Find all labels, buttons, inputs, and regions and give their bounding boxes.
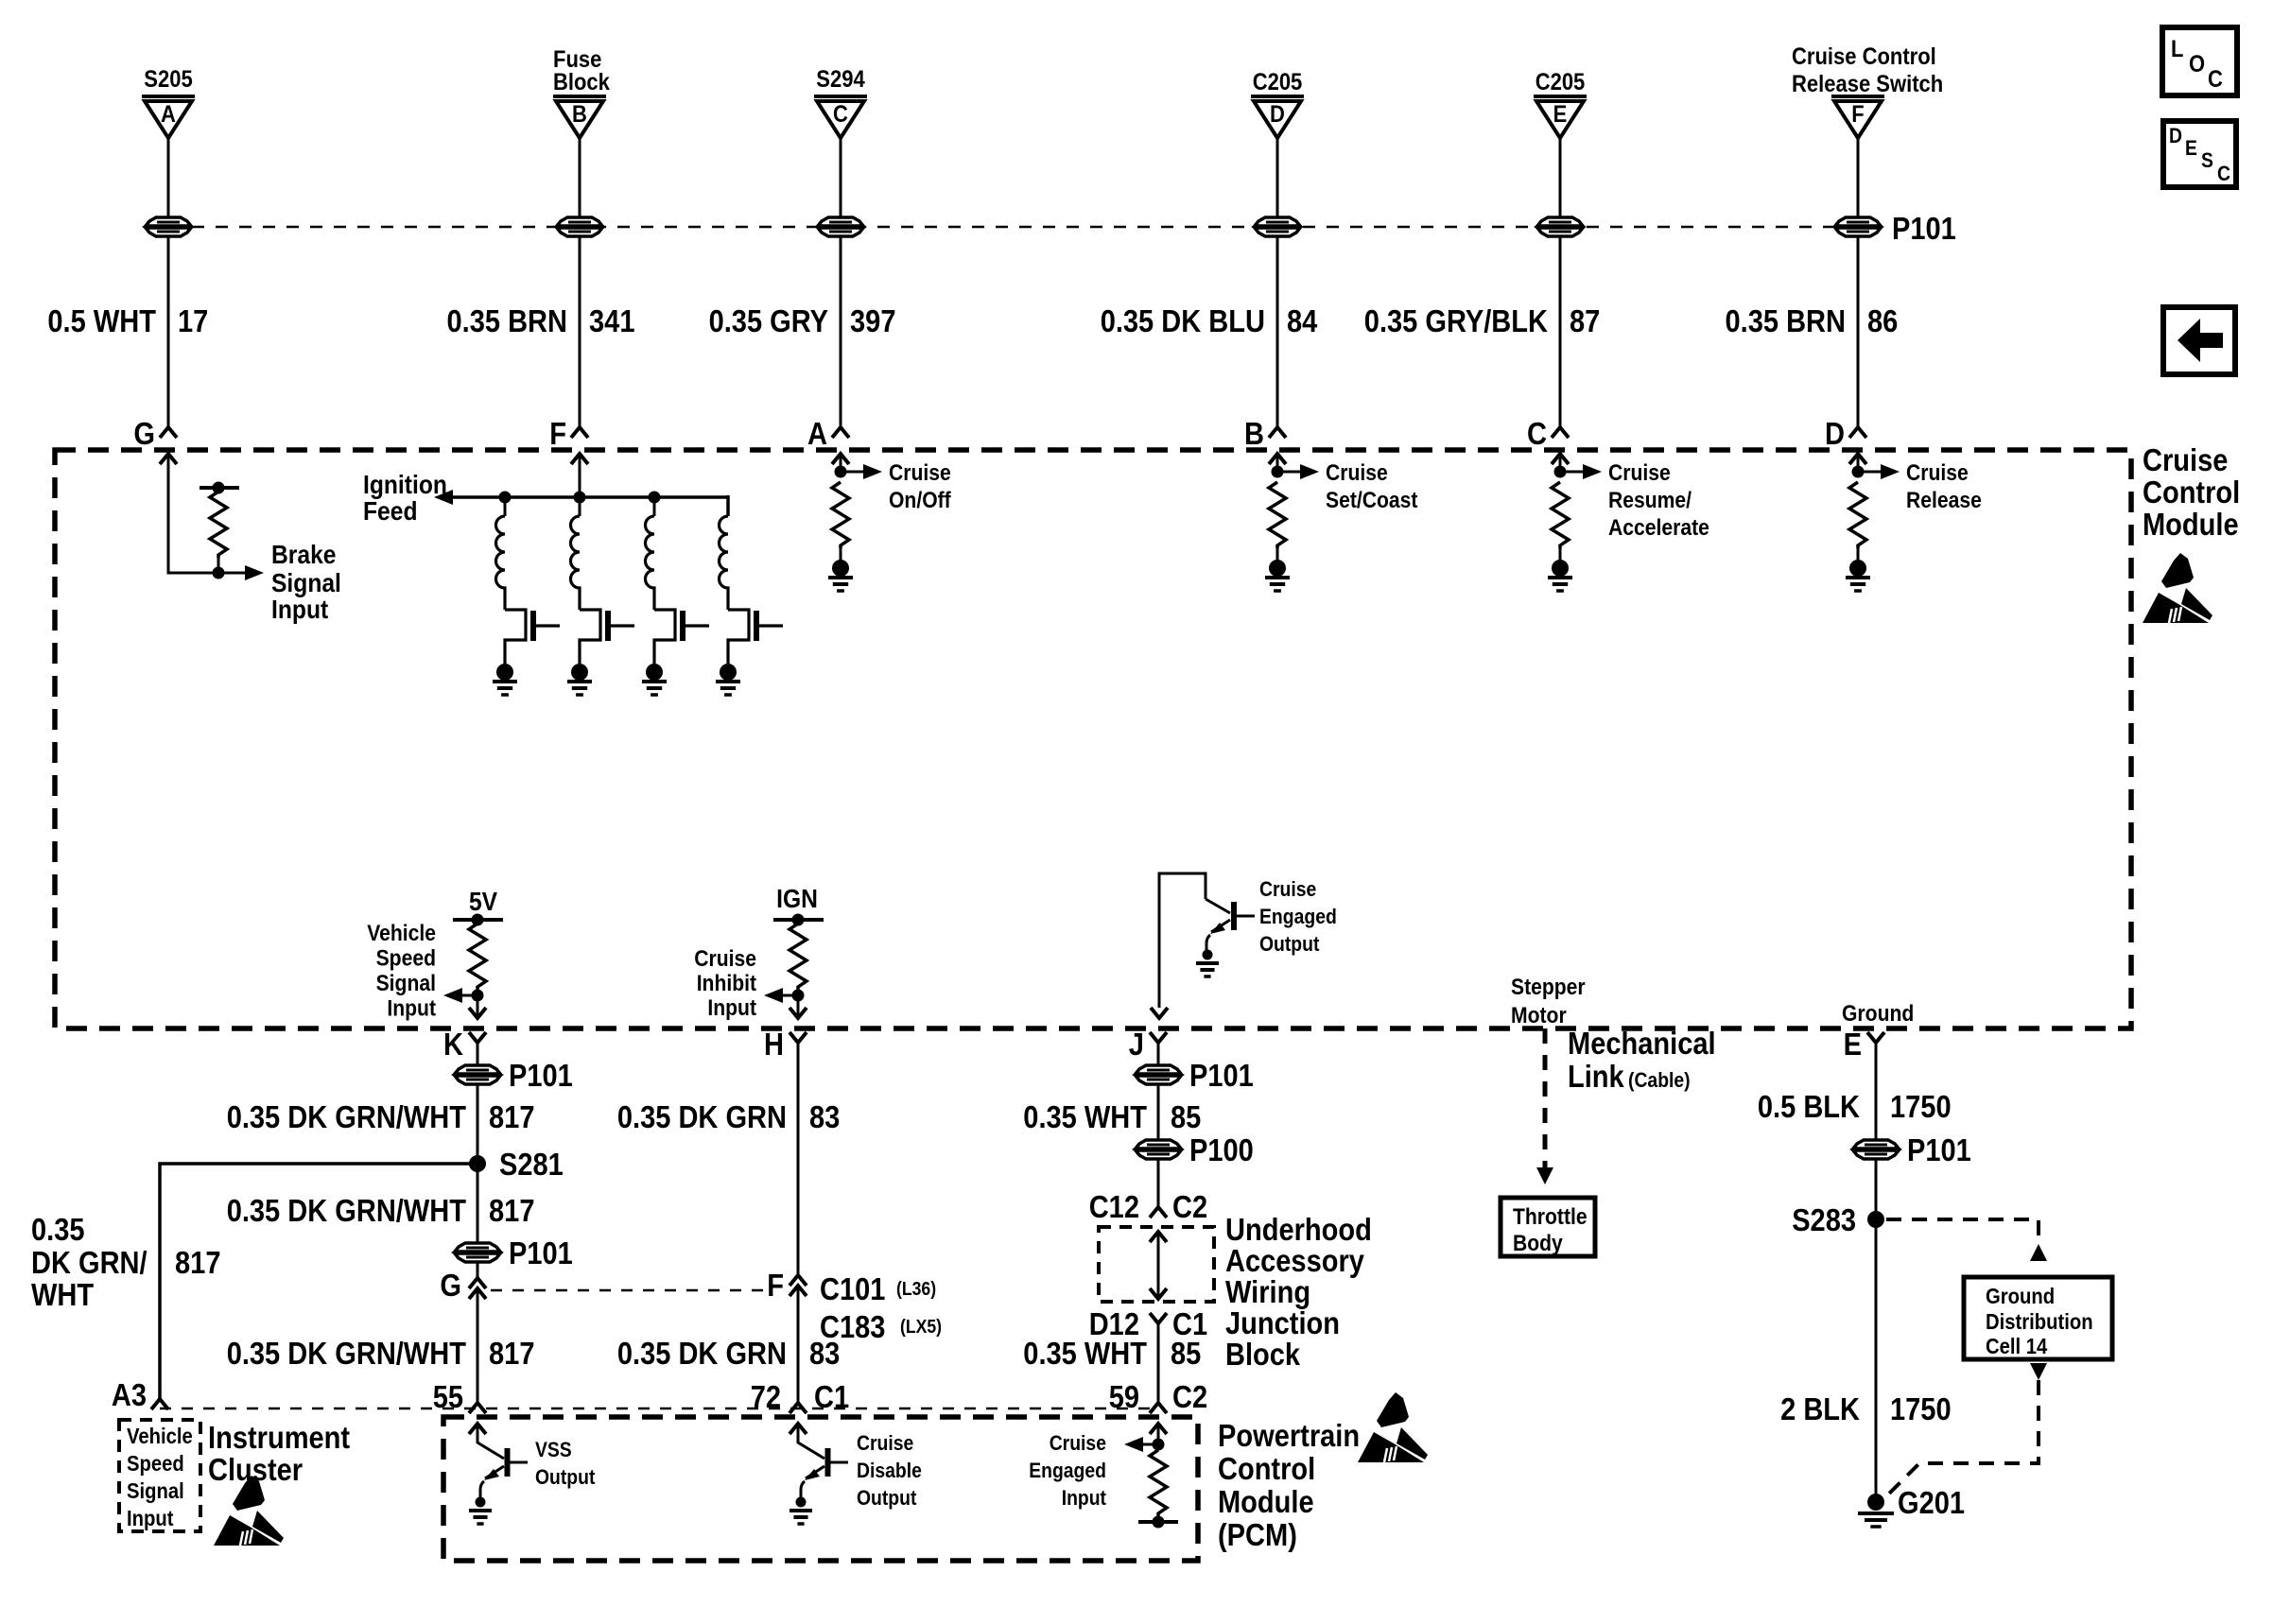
dashed reference from ground distribution to G201	[1886, 1380, 2039, 1496]
svg-text:Engaged: Engaged	[1259, 905, 1337, 928]
svg-text:Input: Input	[387, 996, 436, 1022]
wire circuit 87 from connector to module pin C	[1559, 137, 1562, 427]
svg-text:817: 817	[489, 1336, 535, 1371]
svg-text:WHT: WHT	[31, 1277, 94, 1312]
Underhood Accessory Wiring Junction Block dashed box	[1099, 1227, 1214, 1302]
svg-text:0.35: 0.35	[31, 1212, 85, 1247]
module pin E terminal (bottom)	[1867, 1032, 1884, 1043]
arrow pin H exit	[789, 1008, 807, 1018]
ground Cruise Resume/ Accelerate	[1548, 576, 1572, 579]
module pin H terminal (bottom)	[789, 1032, 807, 1043]
arrow pin K exit	[469, 1008, 486, 1018]
svg-text:O: O	[2189, 51, 2205, 78]
svg-text:Underhood: Underhood	[1225, 1212, 1372, 1247]
pin G entry arrow	[160, 454, 177, 464]
junction dot Cruise Resume/ Accelerate	[1554, 466, 1567, 478]
svg-text:C: C	[2217, 162, 2230, 185]
pin B entry arrow	[1269, 454, 1286, 464]
junction dot driver ground x=692	[646, 664, 663, 681]
svg-text:P101: P101	[1892, 211, 1956, 246]
svg-text:Powertrain: Powertrain	[1218, 1418, 1360, 1453]
svg-text:0.35 GRY/BLK: 0.35 GRY/BLK	[1364, 303, 1548, 338]
svg-text:E: E	[2185, 136, 2197, 160]
wire engaged node to arrow	[1141, 1443, 1158, 1446]
junction dot brake signal node	[213, 567, 225, 579]
junction dot emitter ground	[1203, 950, 1213, 960]
svg-text:C: C	[833, 101, 848, 128]
dashed reference to ground distribution	[1886, 1219, 2039, 1240]
svg-text:Module: Module	[1218, 1484, 1314, 1519]
inductor coil driver column x=534	[496, 516, 506, 610]
svg-text:Cruise: Cruise	[889, 460, 951, 486]
Instrument Cluster pin box (Vehicle Speed Signal Input)	[119, 1420, 200, 1531]
Powertrain Control Module dashed boundary box	[443, 1417, 1198, 1561]
arrow Cruise On/Off	[863, 464, 882, 479]
LOC legend box	[2162, 27, 2237, 95]
svg-text:0.35 WHT: 0.35 WHT	[1023, 1336, 1147, 1371]
svg-text:C2: C2	[1172, 1379, 1207, 1414]
junction dot rail tap x=692	[649, 492, 661, 504]
connector P101 dashed interconnect line	[168, 226, 1882, 229]
junction dot Cruise Release	[1852, 466, 1865, 478]
resistor cruise engaged input	[1150, 1450, 1167, 1516]
dashed connector face line instrument cluster to PCM	[160, 1408, 1158, 1410]
svg-text:C205: C205	[1536, 69, 1586, 95]
inline connector pin F (C101)	[789, 1275, 807, 1286]
ground cruise engaged output	[1196, 961, 1219, 965]
arrow PCM pin 59 entry	[1150, 1424, 1167, 1434]
svg-text:817: 817	[175, 1245, 221, 1280]
IGN supply rail bar	[773, 918, 824, 922]
svg-text:Set/Coast: Set/Coast	[1326, 488, 1417, 513]
svg-text:87: 87	[1570, 303, 1600, 338]
svg-text:G201: G201	[1898, 1485, 1965, 1520]
junction dot ground Cruise Release	[1849, 560, 1866, 577]
ESD sensitivity symbol (instrument cluster)	[214, 1476, 284, 1546]
svg-text:K: K	[443, 1027, 463, 1062]
arrow from ground distribution (down)	[2030, 1363, 2047, 1380]
off-page connector E (C205)	[1534, 95, 1587, 98]
svg-text:P101: P101	[1189, 1058, 1254, 1093]
transistor driver output x=692	[654, 610, 675, 664]
svg-text:0.35 BRN: 0.35 BRN	[1726, 303, 1847, 338]
wire VSS node to pin K	[477, 995, 479, 1018]
junction dot Cruise On/Off	[835, 466, 847, 478]
svg-text:Cruise: Cruise	[694, 946, 756, 972]
svg-text:0.5 WHT: 0.5 WHT	[47, 303, 156, 338]
svg-text:On/Off: On/Off	[889, 488, 952, 513]
svg-text:Cruise: Cruise	[857, 1431, 913, 1455]
svg-text:Input: Input	[271, 595, 328, 624]
junction dot Cruise Set/Coast	[1272, 466, 1284, 478]
arrow Cruise Set/Coast	[1300, 464, 1319, 479]
svg-text:(Cable): (Cable)	[1628, 1068, 1691, 1092]
resistor brake signal input	[210, 492, 227, 558]
wire rail tap down x=692	[653, 497, 656, 516]
inline connector P101 on wire 87	[1537, 217, 1583, 226]
5V supply rail bar	[453, 918, 503, 922]
svg-text:Output: Output	[1259, 932, 1320, 956]
svg-text:Throttle: Throttle	[1513, 1204, 1588, 1230]
svg-text:Ignition: Ignition	[363, 470, 447, 499]
ground cruise disable output	[789, 1509, 812, 1512]
PCM pin 55 terminal	[469, 1403, 486, 1413]
junction dot ground Cruise Set/Coast	[1269, 560, 1286, 577]
svg-text:Cruise: Cruise	[1326, 460, 1388, 486]
svg-text:0.5 BLK: 0.5 BLK	[1758, 1089, 1860, 1124]
svg-text:P101: P101	[509, 1235, 573, 1270]
pin C entry arrow	[1552, 454, 1569, 464]
arrow Cruise Release	[1881, 464, 1900, 479]
svg-text:0.35 DK GRN: 0.35 DK GRN	[617, 1099, 787, 1134]
svg-text:Motor: Motor	[1511, 1003, 1567, 1028]
arrow cruise engaged input	[1124, 1437, 1143, 1452]
svg-text:Wiring: Wiring	[1225, 1274, 1310, 1309]
engaged input bottom rail	[1138, 1520, 1178, 1524]
svg-text:S205: S205	[144, 66, 192, 93]
wire to arrow Cruise Release	[1858, 471, 1883, 474]
svg-text:Cruise Control: Cruise Control	[1792, 43, 1936, 70]
svg-text:VSS: VSS	[535, 1438, 572, 1461]
junction dot rail tap x=613	[574, 492, 586, 504]
module pin G terminal	[160, 427, 177, 438]
wire pin 55 to VSS transistor	[477, 1424, 504, 1459]
svg-text:83: 83	[809, 1099, 840, 1134]
ground driver x=770	[716, 680, 740, 683]
arrow to ground distribution (up)	[2030, 1244, 2047, 1261]
svg-text:0.35 DK GRN/WHT: 0.35 DK GRN/WHT	[227, 1336, 466, 1371]
pin D entry arrow	[1849, 454, 1866, 464]
svg-text:Accelerate: Accelerate	[1608, 515, 1709, 541]
svg-text:F: F	[767, 1268, 784, 1303]
svg-text:397: 397	[850, 303, 896, 338]
module pin F terminal	[571, 427, 588, 438]
transistor Q cruise engaged output	[1206, 899, 1230, 913]
transistor driver output x=534	[505, 610, 526, 664]
svg-text:Mechanical: Mechanical	[1568, 1026, 1716, 1061]
svg-text:17: 17	[178, 303, 208, 338]
wire through junction block	[1157, 1232, 1160, 1299]
svg-text:C: C	[2208, 66, 2223, 93]
svg-text:0.35 GRY: 0.35 GRY	[709, 303, 828, 338]
svg-text:Ground: Ground	[1842, 1001, 1914, 1027]
DESC legend box	[2163, 121, 2236, 187]
svg-text:2 BLK: 2 BLK	[1780, 1391, 1860, 1426]
svg-text:0.35 DK BLU: 0.35 DK BLU	[1101, 303, 1265, 338]
svg-text:G: G	[440, 1268, 461, 1303]
wire D12 to PCM pin 59	[1157, 1323, 1160, 1403]
wire pin J to junction block	[1157, 1043, 1160, 1207]
junction block pin D12 C1 terminal	[1150, 1313, 1167, 1323]
wire pin H to C101	[797, 1043, 800, 1275]
wire resistor to rail	[1157, 1516, 1160, 1522]
back arrow legend box	[2163, 307, 2235, 374]
svg-text:(LX5): (LX5)	[900, 1317, 942, 1338]
ground symbol G201	[1858, 1512, 1894, 1515]
module pin K terminal (bottom)	[469, 1032, 486, 1043]
svg-text:D: D	[1825, 416, 1845, 451]
svg-text:Release Switch: Release Switch	[1792, 71, 1943, 97]
pin F entry arrow	[571, 454, 588, 464]
ground driver x=613	[567, 680, 592, 683]
splice S281	[469, 1155, 486, 1172]
wire circuit 341 from connector to module pin F	[579, 137, 581, 427]
arrow brake signal input	[245, 565, 264, 580]
wire rail tap down x=613	[579, 497, 581, 516]
wire pin stub Cruise Resume/ Accelerate	[1559, 454, 1562, 472]
resistor Cruise Resume/ Accelerate	[1552, 482, 1569, 548]
svg-text:Vehicle: Vehicle	[367, 921, 436, 946]
svg-text:Output: Output	[535, 1465, 596, 1489]
svg-text:Cruise: Cruise	[1906, 460, 1969, 486]
Cruise Control Module dashed boundary box	[55, 450, 2131, 1028]
svg-text:E: E	[1844, 1027, 1862, 1062]
arrow PCM pin 55 entry	[469, 1424, 486, 1434]
svg-text:Block: Block	[1225, 1337, 1301, 1372]
inline connector P101 on circuit 817	[455, 1065, 500, 1074]
PCM pin 72 C1 terminal	[789, 1403, 807, 1413]
junction dot 5V rail	[472, 914, 484, 926]
arrow Cruise Resume/ Accelerate	[1583, 464, 1602, 479]
svg-text:Ground: Ground	[1986, 1284, 2055, 1308]
off-page connector A (S205)	[142, 95, 195, 98]
module pin C terminal	[1552, 427, 1569, 438]
ground VSS output	[469, 1509, 492, 1512]
svg-text:0.35 DK GRN/WHT: 0.35 DK GRN/WHT	[227, 1193, 466, 1228]
junction dot disable emitter	[796, 1497, 807, 1508]
resistor vehicle speed signal input	[469, 924, 486, 990]
junction dot ground Cruise On/Off	[832, 560, 849, 577]
wire pin G to brake input resistor	[168, 454, 218, 573]
svg-text:Input: Input	[707, 995, 756, 1021]
svg-text:G: G	[133, 416, 155, 451]
svg-text:P101: P101	[1907, 1132, 1971, 1167]
svg-text:85: 85	[1171, 1336, 1201, 1371]
svg-text:Feed: Feed	[363, 496, 418, 526]
svg-text:Stepper: Stepper	[1511, 975, 1586, 1000]
junction block pin C12 C2 terminal	[1150, 1207, 1167, 1218]
svg-text:817: 817	[489, 1099, 535, 1134]
back arrow icon	[2178, 319, 2223, 362]
wire pin stub Cruise Release	[1857, 454, 1860, 472]
svg-text:83: 83	[809, 1336, 840, 1371]
svg-text:S294: S294	[816, 66, 864, 93]
svg-text:1750: 1750	[1890, 1089, 1952, 1124]
svg-text:J: J	[1129, 1027, 1144, 1062]
junction dot bottom rail	[1153, 1516, 1165, 1529]
wire pin stub Cruise Set/Coast	[1276, 454, 1279, 472]
Throttle Body box	[1501, 1198, 1595, 1256]
ground driver x=692	[642, 680, 667, 683]
inductor coil driver column x=692	[646, 516, 655, 610]
svg-text:Signal: Signal	[127, 1478, 184, 1503]
arrow cruise inhibit input	[764, 988, 783, 1003]
ignition feed rail	[450, 495, 728, 499]
arrow junction block entry	[1150, 1232, 1167, 1242]
svg-text:Module: Module	[2143, 507, 2239, 542]
ground Cruise Set/Coast	[1265, 576, 1290, 579]
svg-text:F: F	[1851, 101, 1864, 128]
svg-text:Resume/: Resume/	[1608, 488, 1692, 513]
arrow vehicle speed signal input	[443, 988, 462, 1003]
wire circuit 84 from connector to module pin B	[1276, 137, 1279, 427]
svg-text:5V: 5V	[469, 887, 497, 916]
svg-text:0.35 DK GRN/WHT: 0.35 DK GRN/WHT	[227, 1099, 466, 1134]
junction dot rail tap x=534	[499, 492, 512, 504]
instrument cluster pin A3 terminal	[151, 1399, 168, 1409]
svg-text:DK GRN/: DK GRN/	[31, 1245, 147, 1280]
inline connector P101 on wire 84	[1255, 217, 1300, 226]
arrow ignition feed (left)	[434, 490, 453, 505]
junction dot driver ground x=534	[496, 664, 513, 681]
svg-text:Output: Output	[857, 1486, 917, 1510]
brake input pull-up rail	[200, 486, 239, 490]
junction dot engaged input	[1153, 1439, 1165, 1451]
inductor coil driver column x=770	[720, 516, 728, 610]
svg-text:Inhibit: Inhibit	[697, 971, 756, 996]
svg-text:1750: 1750	[1890, 1391, 1952, 1426]
Ground Distribution Cell 14 box	[1964, 1277, 2112, 1359]
inline connector P101 on circuit 1750	[1853, 1140, 1899, 1149]
inline connector P101 on circuit 85	[1136, 1065, 1181, 1074]
svg-text:D: D	[1270, 101, 1285, 128]
off-page connector C (S294)	[814, 95, 867, 98]
svg-text:Engaged: Engaged	[1029, 1459, 1106, 1482]
svg-text:Speed: Speed	[127, 1451, 184, 1476]
transistor VSS output	[505, 1448, 511, 1477]
module pin D terminal	[1849, 427, 1866, 438]
svg-text:A: A	[807, 416, 827, 451]
svg-text:Link: Link	[1568, 1059, 1624, 1094]
wire pin 59 to engaged input node	[1157, 1424, 1160, 1444]
svg-text:(L36): (L36)	[896, 1279, 936, 1300]
inductor coil driver column x=613	[571, 516, 581, 610]
junction dot ground Cruise Resume/ Accelerate	[1552, 560, 1569, 577]
svg-text:341: 341	[589, 303, 635, 338]
svg-text:Control: Control	[1218, 1451, 1315, 1486]
arrow pin J exit	[1151, 1008, 1168, 1018]
inline connector P101 lower on circuit 817	[455, 1243, 500, 1252]
junction dot VSS node	[472, 990, 484, 1002]
svg-text:Instrument: Instrument	[208, 1420, 350, 1455]
svg-text:C205: C205	[1253, 69, 1303, 95]
svg-text:84: 84	[1287, 303, 1318, 338]
transistor driver output x=770	[728, 610, 749, 664]
svg-text:0.35 WHT: 0.35 WHT	[1023, 1099, 1147, 1134]
svg-text:85: 85	[1171, 1099, 1201, 1134]
wire pin 72 to cruise disable transistor	[798, 1424, 824, 1459]
off-page connector D (C205)	[1251, 95, 1304, 98]
svg-text:S283: S283	[1792, 1202, 1856, 1237]
resistor Cruise Set/Coast	[1269, 482, 1286, 548]
wire brake node to arrow	[218, 572, 248, 575]
svg-text:P100: P100	[1189, 1132, 1254, 1167]
wire collector branch cruise engaged output	[1159, 873, 1206, 1008]
svg-text:Signal: Signal	[271, 568, 341, 597]
arrow mechanical link	[1536, 1167, 1553, 1184]
svg-text:Input: Input	[127, 1506, 174, 1530]
transistor cruise disable output	[825, 1448, 831, 1477]
svg-text:L: L	[2171, 36, 2183, 62]
svg-text:Speed: Speed	[376, 946, 436, 972]
module pin A terminal	[832, 427, 849, 438]
wire inhibit node to pin H	[797, 995, 800, 1018]
svg-text:Disable: Disable	[857, 1459, 922, 1482]
svg-text:Cruise: Cruise	[2143, 442, 2228, 477]
off-page connector B (Fuse Block)	[553, 95, 606, 98]
svg-text:Cell 14: Cell 14	[1986, 1334, 2047, 1358]
svg-text:A: A	[161, 101, 176, 128]
inline connector P101 on wire 397	[818, 217, 863, 226]
svg-text:C: C	[1527, 416, 1547, 451]
wire pin K to S281	[477, 1043, 479, 1164]
inline connector P100 on circuit 85	[1136, 1140, 1181, 1149]
svg-text:C2: C2	[1172, 1189, 1207, 1224]
svg-text:C101: C101	[820, 1271, 885, 1306]
wire G to PCM pin 55	[477, 1288, 479, 1403]
ground G201 junction dot	[1867, 1494, 1884, 1511]
svg-text:B: B	[1244, 416, 1264, 451]
wire circuit 397 from connector to module pin A	[840, 137, 842, 427]
off-page connector F (Cruise Control Release Switch)	[1831, 95, 1884, 98]
wire to arrow Cruise Resume/ Accelerate	[1560, 471, 1585, 474]
svg-text:A3: A3	[112, 1377, 147, 1412]
ESD sensitivity symbol (PCM)	[1358, 1392, 1428, 1462]
wire VSS node to arrow	[460, 994, 477, 997]
resistor Cruise Release	[1849, 482, 1866, 548]
svg-text:Distribution: Distribution	[1986, 1309, 2093, 1334]
svg-text:817: 817	[489, 1193, 535, 1228]
svg-text:Cruise: Cruise	[1608, 460, 1671, 486]
dashed mechanical link from module	[1543, 1028, 1548, 1168]
ground Cruise Release	[1846, 576, 1870, 579]
svg-text:(PCM): (PCM)	[1218, 1517, 1297, 1552]
ground driver x=534	[493, 680, 517, 683]
wire circuit 86 from connector to module pin D	[1857, 137, 1860, 427]
arrow junction block exit	[1150, 1288, 1167, 1299]
svg-text:Brake: Brake	[271, 540, 337, 569]
resistor Cruise On/Off	[832, 482, 849, 548]
svg-text:Control: Control	[2143, 475, 2240, 510]
svg-text:Input: Input	[1062, 1486, 1107, 1510]
inline connector P101 on wire 341	[557, 217, 602, 226]
svg-text:Accessory: Accessory	[1225, 1243, 1364, 1278]
svg-text:Vehicle: Vehicle	[127, 1424, 193, 1448]
wire to arrow Cruise Set/Coast	[1277, 471, 1302, 474]
wire S281 branch to instrument cluster	[160, 1164, 477, 1399]
dashed connector face line G to F	[491, 1289, 764, 1292]
svg-text:86: 86	[1867, 303, 1898, 338]
svg-text:P101: P101	[509, 1058, 573, 1093]
PCM pin 59 C2 terminal	[1150, 1403, 1167, 1413]
svg-text:Release: Release	[1906, 488, 1982, 513]
inline connector P101 on wire 17	[146, 217, 191, 226]
svg-text:S281: S281	[499, 1147, 564, 1182]
wire inhibit node to arrow	[781, 994, 798, 997]
svg-text:0.35 BRN: 0.35 BRN	[447, 303, 568, 338]
wire S281 down to P101	[477, 1164, 479, 1278]
ground Cruise On/Off	[828, 576, 853, 579]
wire circuit 17 from connector to module pin G	[167, 137, 170, 427]
pin A entry arrow	[832, 454, 849, 464]
svg-text:Junction: Junction	[1225, 1305, 1340, 1340]
ESD sensitivity symbol (module)	[2143, 553, 2212, 623]
svg-text:B: B	[572, 101, 587, 128]
wire F to PCM pin 72	[797, 1286, 800, 1403]
junction dot on rail	[213, 482, 225, 494]
svg-text:Block: Block	[553, 69, 610, 95]
svg-text:S: S	[2201, 148, 2213, 172]
